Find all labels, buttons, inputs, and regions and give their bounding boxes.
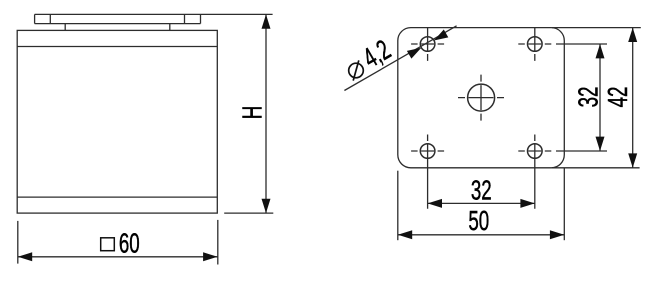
step line right — [169, 24, 171, 31]
arrow 42 top — [628, 28, 637, 42]
centerlines corner hole bottom-left — [411, 150, 444, 152]
corner hole top-left — [420, 37, 435, 52]
50 dim right extension line — [563, 168, 565, 240]
top view plate outline — [398, 28, 565, 168]
square-60 dimension left extension line — [17, 221, 19, 264]
svg-text:50: 50 — [468, 206, 489, 238]
svg-text:60: 60 — [119, 228, 140, 260]
50 dimension line — [398, 234, 565, 236]
arrow H bottom — [262, 199, 271, 213]
mounting plate (side view) bottom edge — [35, 23, 201, 25]
leg body top band line — [17, 46, 217, 48]
arrow r32 top — [596, 44, 605, 58]
square-60 dimension line — [18, 256, 218, 258]
diameter symbol circle — [349, 60, 364, 80]
leg body outline (side view) — [17, 30, 217, 213]
centerlines center hole — [458, 75, 504, 121]
centerlines corner hole top-right — [518, 43, 551, 45]
right 32 dimension line — [599, 44, 601, 151]
arrow sq60 left — [18, 252, 32, 261]
square symbol of dim 60 — [101, 238, 115, 251]
42 dim top extension line — [552, 27, 641, 29]
50 dim left extension line — [397, 171, 399, 241]
svg-text:42: 42 — [602, 87, 634, 108]
corner hole bottom-right — [528, 144, 543, 159]
arrow dia lower-left — [407, 48, 421, 59]
right 32 dim top extension line — [556, 43, 607, 45]
arrow dia upper-right — [434, 30, 448, 41]
center hole — [468, 84, 495, 111]
42 dim bottom extension line — [552, 167, 640, 169]
mounting plate right edge — [200, 14, 202, 23]
arrow H top — [262, 14, 271, 28]
step line left — [64, 24, 66, 31]
centerlines corner hole top-left — [411, 43, 444, 45]
right 32 dim bottom extension line — [556, 150, 607, 152]
corner hole top-right — [528, 37, 543, 52]
arrow 42 bottom — [628, 153, 637, 167]
42 dimension line — [632, 28, 634, 168]
svg-text:H: H — [237, 106, 269, 120]
mounting plate (side view) top edge + H extension line — [35, 13, 273, 15]
bottom 32 dimension line — [428, 202, 535, 204]
arrow b32 right — [520, 199, 534, 208]
arrow 50 right — [550, 230, 564, 239]
leg body bottom band line — [17, 196, 217, 198]
plate divider left — [49, 14, 51, 23]
diameter symbol slash — [353, 60, 359, 80]
diameter leader line — [344, 26, 456, 91]
arrow 50 left — [398, 230, 412, 239]
arrow b32 left — [428, 199, 442, 208]
mounting plate left edge — [34, 14, 36, 23]
square-60 dimension right extension line — [217, 220, 219, 265]
H dimension line — [265, 14, 267, 213]
svg-text:32: 32 — [573, 87, 605, 108]
centerlines corner hole bottom-right — [518, 150, 551, 152]
plate divider right — [184, 14, 186, 23]
corner hole bottom-left — [420, 144, 435, 159]
arrow sq60 right — [203, 252, 217, 261]
arrow r32 bottom — [596, 137, 605, 151]
H dimension bottom extension line — [224, 212, 273, 214]
svg-text:32: 32 — [471, 175, 492, 207]
